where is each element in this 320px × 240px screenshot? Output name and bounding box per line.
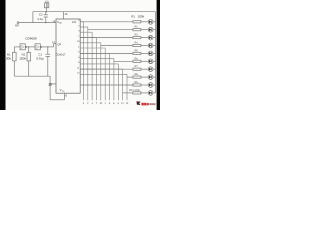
matrix column 11 xyxy=(126,74,128,100)
svg-text:16: 16 xyxy=(64,13,67,16)
junction node xyxy=(46,11,47,12)
wire R1 to LED xyxy=(141,21,148,23)
resistor R3 xyxy=(133,37,141,39)
wire 6V feed xyxy=(19,22,56,24)
matrix column 1 xyxy=(82,22,84,101)
wire LED to bus xyxy=(153,29,156,31)
matrix column 9 xyxy=(117,64,119,100)
svg-text:100k: 100k xyxy=(138,14,145,18)
wire row 9 xyxy=(80,84,133,86)
wire row 7 xyxy=(80,68,133,70)
wire inverter1 to inverter2 xyxy=(27,46,35,48)
pin stub 9 xyxy=(80,63,118,65)
wire R2 to LED xyxy=(141,29,148,31)
wire C3 stub to V+ rail xyxy=(45,8,47,12)
inverter U2b xyxy=(35,44,40,50)
matrix column 6 xyxy=(104,48,106,100)
svg-text:CP: CP xyxy=(57,42,61,46)
LED D3 xyxy=(148,35,153,40)
matrix column 5 xyxy=(100,43,102,101)
wire clock to CP pin 14 xyxy=(54,44,56,47)
wire LED to bus xyxy=(153,37,156,39)
wire Vss pin 8 stub xyxy=(63,93,65,100)
watermark logo xyxy=(137,101,156,105)
matrix column 8 xyxy=(113,59,115,101)
wire LED to bus xyxy=(153,84,156,86)
wire R6 to LED xyxy=(141,60,148,62)
matrix column 4 xyxy=(96,38,98,101)
wire Vdd pin 16 stub xyxy=(63,12,65,19)
wire LED to bus xyxy=(153,21,156,23)
svg-text:0.1μ: 0.1μ xyxy=(38,17,44,21)
node B junction xyxy=(28,46,29,47)
IC U1 CD4017 body xyxy=(56,19,80,93)
resistor R10 xyxy=(133,92,141,94)
wire node A down xyxy=(13,47,15,52)
capacitor C1 xyxy=(46,53,51,55)
wire R4 to LED xyxy=(141,45,148,47)
node C junction xyxy=(47,46,48,47)
wire R7 to LED xyxy=(141,68,148,70)
wire R10 to LED xyxy=(141,92,148,94)
inverter U2a xyxy=(20,44,25,50)
matrix column 3 xyxy=(91,32,93,100)
pin stub 2 xyxy=(80,26,88,28)
resistor R8 xyxy=(133,76,141,78)
wire inverter2 out xyxy=(42,46,54,48)
LED D7 xyxy=(148,67,153,72)
wire R9 to LED xyxy=(141,84,148,86)
svg-text:R1: R1 xyxy=(131,14,135,18)
wire row 2 xyxy=(88,29,133,31)
wire LED to bus xyxy=(153,60,156,62)
capacitor C2 plates xyxy=(44,14,48,16)
inverter U2b bubble xyxy=(40,46,41,47)
resistor R11 xyxy=(13,52,17,61)
wire node C down xyxy=(47,47,49,54)
wire C2 stub from rail xyxy=(45,12,47,15)
LED D8 xyxy=(148,75,153,80)
wire branch to pin 13 xyxy=(50,83,56,85)
wire R5 to LED xyxy=(141,52,148,54)
wire row 3 xyxy=(80,37,133,39)
LED D4 xyxy=(148,43,153,48)
wire row 1 xyxy=(80,21,133,23)
svg-text:CO: CO xyxy=(72,20,77,24)
resistor R5 xyxy=(133,52,141,54)
left black border bar xyxy=(0,0,6,110)
wire LED to bus xyxy=(153,76,156,78)
pin stub 3 xyxy=(80,21,83,23)
component C3 top box xyxy=(44,3,48,8)
LED D10 xyxy=(148,91,153,96)
resistor R2 xyxy=(133,29,141,31)
wire LED to bus xyxy=(153,45,156,47)
LED D6 xyxy=(148,59,153,64)
wire rail drop xyxy=(49,76,51,100)
wire R3 to LED xyxy=(141,37,148,39)
terminal 6V xyxy=(17,22,19,24)
LED D2 xyxy=(148,27,153,32)
wire LED to bus xyxy=(153,92,156,94)
resistor R9 xyxy=(133,84,141,86)
wire R12 to rail xyxy=(28,61,30,76)
right black border bar xyxy=(157,0,160,110)
pin stub 11 xyxy=(80,68,122,70)
wire ground run xyxy=(50,99,64,101)
matrix column 7 xyxy=(109,53,111,100)
matrix column 10 xyxy=(122,69,124,100)
LED D9 xyxy=(148,83,153,88)
resistor R4 xyxy=(133,44,141,46)
wire oscillator bottom rail xyxy=(14,75,50,77)
matrix column 2 xyxy=(87,27,89,100)
wire node A to inverter1 xyxy=(14,46,20,48)
wire V+ top rail xyxy=(33,11,156,13)
svg-text:C3: C3 xyxy=(45,1,49,4)
resistor R7 xyxy=(133,68,141,70)
junction node on 6V wire xyxy=(45,22,46,23)
svg-text:CD4069: CD4069 xyxy=(25,37,37,41)
pin stub 1 xyxy=(80,47,105,49)
wire row 8 xyxy=(127,76,133,78)
LED D5 xyxy=(148,51,153,56)
LED D1 xyxy=(148,19,153,24)
wire C2 stub to 6V wire xyxy=(45,17,47,23)
svg-text:100k: 100k xyxy=(4,57,11,61)
wire LED to bus xyxy=(153,52,156,54)
wire C1 to rail xyxy=(47,56,49,76)
svg-text:0.01μ: 0.01μ xyxy=(36,57,44,61)
wire row 5 xyxy=(80,52,133,54)
wire right bus xyxy=(155,12,157,93)
wire R11 to rail xyxy=(13,61,15,76)
wire LED to bus xyxy=(153,68,156,70)
resistor R6 xyxy=(133,60,141,62)
svg-text:150k: 150k xyxy=(19,57,26,61)
wire row 6 xyxy=(114,60,133,62)
svg-text:R10 100k: R10 100k xyxy=(129,89,140,92)
wire row 10 xyxy=(123,92,133,94)
svg-text:CD4017: CD4017 xyxy=(56,53,66,56)
resistor R1 xyxy=(133,21,141,23)
wire riser to V+ rail xyxy=(32,12,34,23)
pin stub 5 xyxy=(80,52,109,54)
pin stub 6 xyxy=(80,58,114,60)
pin stub 12 xyxy=(80,73,127,75)
wire row 4 xyxy=(101,45,133,47)
pin stub 4 xyxy=(80,31,92,33)
wire R8 to LED xyxy=(141,76,148,78)
resistor R12 xyxy=(27,52,31,61)
pin stub 7 xyxy=(80,37,96,39)
pin stub 10 xyxy=(80,42,101,44)
inverter U2a bubble xyxy=(25,46,26,47)
svg-text:13: 13 xyxy=(48,83,52,87)
wire node B down xyxy=(28,47,30,52)
